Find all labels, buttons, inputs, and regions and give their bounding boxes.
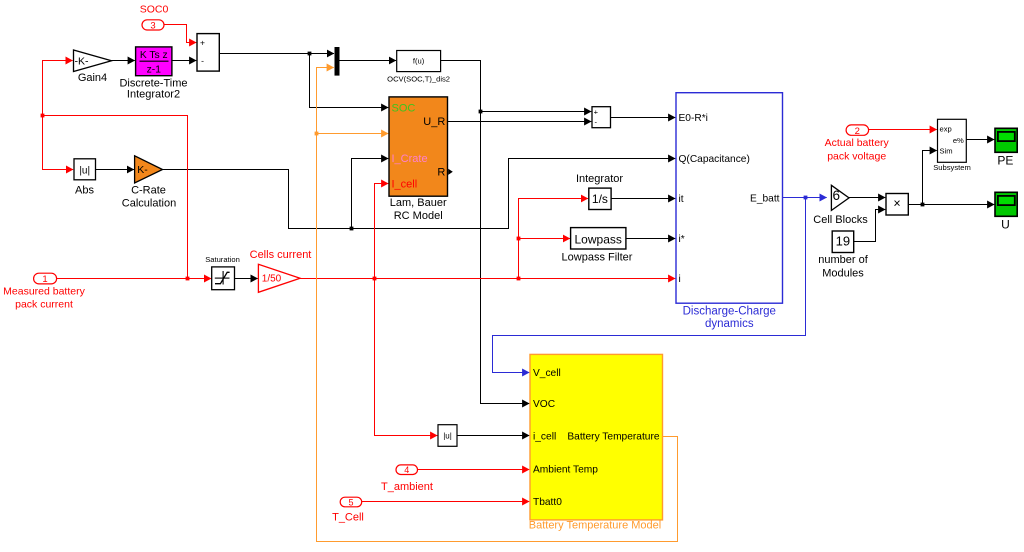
scope U <box>995 192 1017 231</box>
svg-text:Gain4: Gain4 <box>78 72 107 84</box>
svg-text:I_Crate: I_Crate <box>392 153 428 165</box>
port SOC0 (inport 3) <box>140 4 169 32</box>
block Lowpass Filter <box>562 228 633 264</box>
svg-text:|u|: |u| <box>443 431 452 440</box>
svg-text:e%: e% <box>953 136 964 145</box>
svg-text:Abs: Abs <box>75 184 94 196</box>
gain Cell Blocks (6) <box>813 185 868 226</box>
wire: product output to scope U <box>909 204 995 206</box>
svg-text:V_cell: V_cell <box>533 368 561 379</box>
block Saturation <box>205 255 240 290</box>
svg-text:-: - <box>201 55 204 65</box>
svg-text:-K-: -K- <box>75 55 90 67</box>
svg-text:3: 3 <box>150 20 155 31</box>
svg-text:T_ambient: T_ambient <box>381 481 433 493</box>
wire: Sum output to Mux input 1 <box>220 53 335 55</box>
wire: Integrator output to it input <box>611 198 675 200</box>
svg-text:2: 2 <box>855 126 860 137</box>
wire: subtract block output to E0-R*i input <box>611 117 676 119</box>
svg-text:Subsystem: Subsystem <box>933 163 971 172</box>
svg-text:Measured battery: Measured battery <box>3 286 85 298</box>
product block (x) <box>886 194 908 216</box>
svg-text:1/50: 1/50 <box>262 274 282 285</box>
wire: Mux output to f(u) <box>340 60 397 62</box>
svg-text:Lowpass: Lowpass <box>575 233 622 247</box>
wire: U_R output to subtract block minus input <box>448 121 592 123</box>
mux Mux <box>335 47 340 76</box>
svg-text:Lowpass Filter: Lowpass Filter <box>562 252 633 264</box>
svg-text:K-: K- <box>137 164 148 176</box>
wire: Gain4 output to Discrete-Time Integrator2 <box>112 60 135 62</box>
svg-text:i_cell: i_cell <box>533 431 556 442</box>
svg-text:number of: number of <box>818 254 868 266</box>
svg-text:pack voltage: pack voltage <box>827 150 886 162</box>
wire: branch down to VOC input of Battery Temperature Model <box>481 112 530 404</box>
svg-text:U: U <box>1001 218 1010 232</box>
sum block subtract (E0 minus U_R) <box>592 107 611 128</box>
node: junction on C-Rate wire <box>350 227 354 231</box>
node: junction on Gain4 feed wire <box>41 114 45 118</box>
port R output arrow of Lam Bauer RC Model <box>448 169 453 175</box>
svg-text:E_batt: E_batt <box>750 193 780 204</box>
port Actual battery pack voltage (inport 2) <box>825 125 890 162</box>
svg-text:19: 19 <box>836 233 850 248</box>
wire: branch from Sum output down to SOC input of Lam Bauer RC Model <box>310 54 389 108</box>
sum block Sum <box>197 34 219 72</box>
wire: Battery Temperature output feedback to Mux input 2 <box>317 68 678 542</box>
svg-text:PE: PE <box>997 153 1013 167</box>
svg-text:OCV(SOC,T)_dis2: OCV(SOC,T)_dis2 <box>387 75 450 84</box>
svg-text:1: 1 <box>42 274 47 285</box>
wire: branch up to Integrator input <box>519 199 589 279</box>
wire: T_ambient port to Ambient Temp input <box>418 469 530 471</box>
svg-text:Q(Capacitance): Q(Capacitance) <box>679 154 750 165</box>
svg-text:Integrator2: Integrator2 <box>127 89 180 101</box>
svg-text:Battery Temperature Model: Battery Temperature Model <box>529 519 661 531</box>
svg-text:Sim: Sim <box>940 147 953 156</box>
svg-text:SOC: SOC <box>392 102 416 114</box>
gain Gain4 <box>74 50 112 84</box>
wire: Cell Blocks gain output to product input 1 <box>849 197 885 199</box>
wire: E_batt output to Cell Blocks gain <box>783 197 827 199</box>
svg-text:pack current: pack current <box>15 299 73 311</box>
node: junction on temperature feedback wire <box>315 132 319 136</box>
wire: Saturation output to Cells current gain <box>235 278 258 280</box>
svg-text:4: 4 <box>404 465 409 475</box>
svg-text:+: + <box>594 107 599 116</box>
wire: E_batt branch down to V_cell input <box>493 198 806 373</box>
block Abs <box>74 159 96 197</box>
node: junction on Sum output wire <box>308 52 312 56</box>
subsystem Subsystem (exp/Sim/e%) <box>933 119 971 172</box>
svg-text:I_cell: I_cell <box>392 178 418 190</box>
block Integrator (1/s) <box>576 173 623 210</box>
subsystem Battery Temperature Model <box>529 354 663 531</box>
svg-text:Tbatt0: Tbatt0 <box>533 497 562 508</box>
node: junction on pack current wire <box>186 277 190 281</box>
node: junction on E_batt wire <box>804 196 808 200</box>
wire: branch up from pack current to Gain4 input <box>43 61 188 279</box>
svg-text:Battery Temperature: Battery Temperature <box>567 431 659 442</box>
svg-text:|u|: |u| <box>79 165 90 176</box>
svg-text:Saturation: Saturation <box>205 255 240 264</box>
svg-text:Actual battery: Actual battery <box>825 137 890 149</box>
svg-text:Lam, Bauer: Lam, Bauer <box>390 197 447 209</box>
wire: branch up to I_Crate input of Lam Bauer RC Model <box>352 159 389 229</box>
svg-text:K Ts z: K Ts z <box>140 50 168 61</box>
svg-text:E0-R*i: E0-R*i <box>679 113 708 124</box>
svg-text:1/s: 1/s <box>592 192 608 206</box>
wire: branch to Lowpass input <box>519 238 571 240</box>
svg-text:dynamics: dynamics <box>705 318 754 330</box>
wire: Lowpass output to i* input <box>626 238 675 240</box>
svg-text:f(u): f(u) <box>413 57 425 66</box>
wire: C-Rate Calculation output to Q(Capacitance) input <box>163 159 676 229</box>
node: junction at f(u) output branch <box>479 110 483 114</box>
svg-text:+: + <box>200 38 205 48</box>
svg-text:×: × <box>893 197 900 211</box>
svg-text:C-Rate: C-Rate <box>131 184 166 196</box>
node: junction on cells current wire at x374 <box>373 277 377 281</box>
wire: T_Cell port to Tbatt0 input <box>362 501 530 503</box>
svg-text:Ambient Temp: Ambient Temp <box>533 464 598 475</box>
svg-text:SOC0: SOC0 <box>140 4 169 16</box>
svg-text:R: R <box>437 166 445 178</box>
constant number of Modules (19) <box>818 231 868 280</box>
gain Cells current (1/50) <box>250 249 312 292</box>
wire: branch up to Sim input of Subsystem <box>923 151 937 205</box>
node: junction on cells current wire at x518 <box>517 277 521 281</box>
wire: Measured battery pack current to Saturation <box>57 278 212 280</box>
svg-text:Discharge-Charge: Discharge-Charge <box>683 305 776 317</box>
block Discrete-Time Integrator2 <box>119 47 187 101</box>
gain C-Rate Calculation <box>122 156 176 210</box>
node: junction on integrator feed wire <box>517 237 521 241</box>
wire: f(u) output down to branch point <box>441 61 481 112</box>
svg-text:VOC: VOC <box>533 399 555 410</box>
svg-text:Integrator: Integrator <box>576 173 623 185</box>
svg-text:5: 5 <box>348 497 353 507</box>
wire: Discrete-Time Integrator2 output to Sum minus input <box>172 60 196 62</box>
wire: Actual battery pack voltage port to exp input <box>868 129 937 131</box>
wire: branch to subtract block plus input <box>481 111 592 113</box>
subsystem Discharge-Charge dynamics <box>676 93 783 330</box>
svg-text:RC Model: RC Model <box>394 210 443 222</box>
wire: Abs output to C-Rate Calculation input <box>96 169 135 171</box>
svg-text:T_Cell: T_Cell <box>332 512 364 524</box>
wire: Abs2 output to i_cell input of Battery Temperature Model <box>457 435 529 437</box>
wire: Subsystem e% output to scope PE <box>967 139 995 141</box>
svg-text:6: 6 <box>833 188 841 203</box>
block Abs2 (|u|) <box>438 425 457 447</box>
port T_Cell (inport 5) <box>332 497 364 523</box>
subsystem Lam, Bauer RC Model <box>389 97 448 222</box>
svg-text:z-1: z-1 <box>147 65 162 76</box>
svg-text:i: i <box>679 274 681 285</box>
port Measured battery pack current (inport 1) <box>3 273 85 310</box>
block OCV(SOC,T)_dis2 f(u) <box>387 51 450 84</box>
node: junction on product output wire <box>921 203 925 207</box>
wire: branch down to Abs2 input <box>375 279 438 436</box>
svg-text:U_R: U_R <box>423 116 445 128</box>
svg-text:exp: exp <box>940 125 952 134</box>
svg-text:Cell Blocks: Cell Blocks <box>813 214 868 226</box>
wire: number of Modules to product input 2 <box>854 210 886 242</box>
svg-text:Calculation: Calculation <box>122 197 176 209</box>
svg-text:Cells current: Cells current <box>250 249 312 261</box>
wire: branch down to Abs input <box>43 116 74 170</box>
scope PE <box>995 128 1017 167</box>
wire: SOC0 port to Sum plus input <box>164 25 196 43</box>
wire: temperature branch to Lam Bauer RC Model port 2 <box>317 133 389 135</box>
svg-text:i*: i* <box>679 234 685 245</box>
svg-text:it: it <box>679 194 684 205</box>
wire: Cells current gain output to i input <box>300 278 675 280</box>
wire: branch up to I_cell input of Lam Bauer RC Model <box>375 184 389 279</box>
port T_ambient (inport 4) <box>381 465 433 493</box>
svg-text:Modules: Modules <box>822 268 864 280</box>
